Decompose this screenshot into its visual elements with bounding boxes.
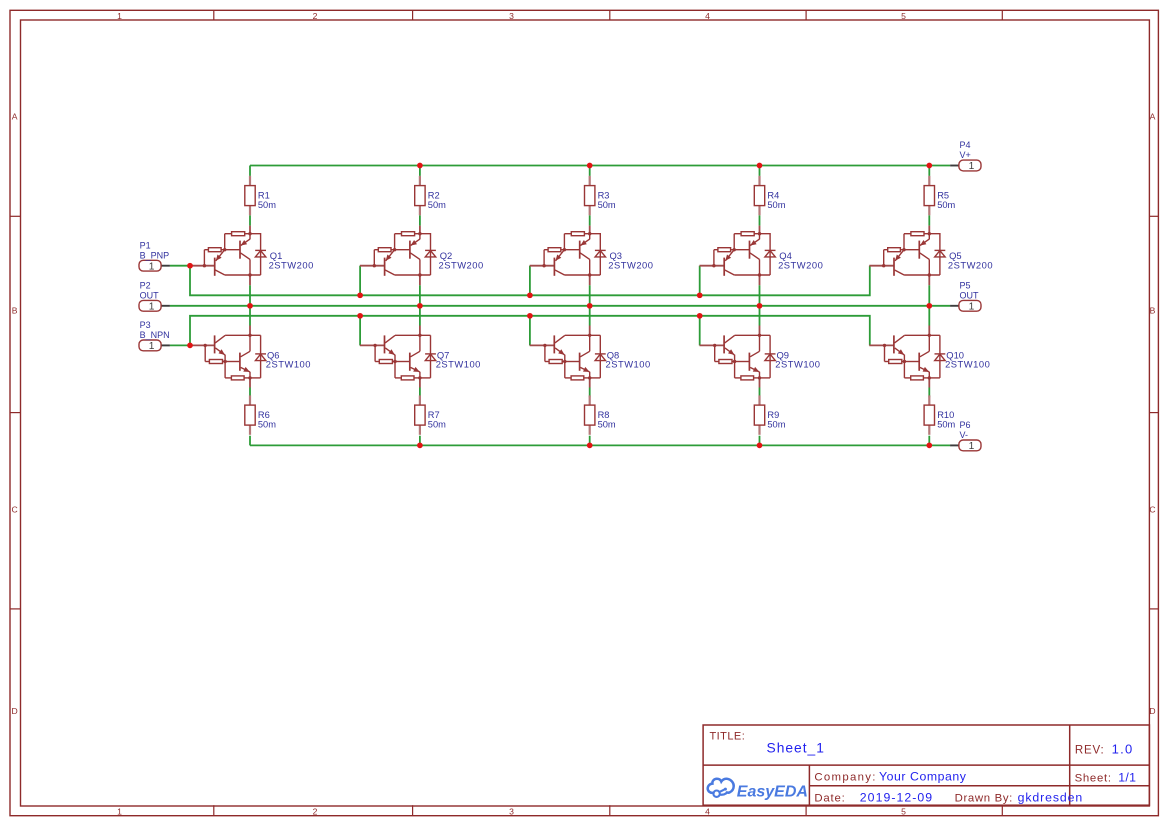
- svg-text:Sheet_1: Sheet_1: [767, 741, 825, 756]
- junction OUT bus / Q5 column: [926, 303, 932, 309]
- svg-text:2STW100: 2STW100: [945, 359, 990, 370]
- transistor Q4 (2STW200 PNP darlington): [700, 226, 824, 286]
- wire resistor-to-transistor stubs: [250, 215, 929, 397]
- wire B_NPN bus: [170, 316, 870, 346]
- port P5 OUT: [950, 280, 981, 312]
- transistor Q2 (2STW200 PNP darlington): [360, 226, 484, 286]
- svg-text:2STW200: 2STW200: [439, 259, 484, 270]
- svg-text:OUT: OUT: [140, 291, 160, 301]
- junction B_NPN bus / Q9 base: [697, 313, 703, 319]
- wire OUT bus: [170, 285, 950, 325]
- resistor R8 (50m): [585, 395, 616, 434]
- sheet 1/1: [1075, 771, 1137, 785]
- svg-text:2STW200: 2STW200: [269, 259, 314, 270]
- svg-text:B: B: [12, 306, 18, 316]
- svg-text:Your Company: Your Company: [879, 769, 967, 783]
- junction P1 / Q1 base: [187, 263, 193, 269]
- svg-text:P6: P6: [960, 420, 971, 430]
- port P3 B_NPN: [139, 320, 170, 352]
- company: [814, 769, 966, 783]
- svg-text:Date:: Date:: [814, 792, 845, 804]
- junction OUT bus / Q4 column: [757, 303, 763, 309]
- resistor R3 (50m): [585, 176, 616, 215]
- port P1 B_PNP: [139, 240, 170, 272]
- svg-text:5: 5: [901, 11, 906, 21]
- svg-text:50m: 50m: [767, 419, 785, 429]
- transistor Q10 (2STW100 NPN darlington): [869, 326, 990, 388]
- svg-text:1/1: 1/1: [1118, 771, 1136, 785]
- svg-text:Company:: Company:: [814, 771, 876, 783]
- svg-text:50m: 50m: [428, 419, 446, 429]
- svg-text:50m: 50m: [937, 200, 955, 210]
- svg-text:TITLE:: TITLE:: [710, 731, 746, 743]
- resistor R6 (50m): [245, 395, 276, 434]
- transistor Q8 (2STW100 NPN darlington): [530, 326, 651, 388]
- svg-text:1: 1: [969, 441, 975, 452]
- svg-text:50m: 50m: [767, 200, 785, 210]
- svg-text:50m: 50m: [598, 419, 616, 429]
- junction V- rail / R8: [587, 443, 593, 449]
- svg-text:EasyEDA: EasyEDA: [737, 784, 808, 801]
- svg-text:1: 1: [117, 806, 122, 816]
- svg-text:5: 5: [901, 806, 906, 816]
- svg-text:1: 1: [149, 261, 155, 272]
- EasyEDA logo: [708, 779, 808, 801]
- svg-text:3: 3: [509, 11, 514, 21]
- svg-text:2STW100: 2STW100: [775, 359, 820, 370]
- junction B_NPN bus / Q7 base: [357, 313, 363, 319]
- svg-text:2019-12-09: 2019-12-09: [860, 790, 933, 804]
- junction B_PNP bus / Q3 base: [527, 292, 533, 298]
- port P2 OUT: [139, 280, 170, 312]
- transistor Q1 (2STW200 PNP darlington): [190, 226, 314, 286]
- svg-text:P3: P3: [140, 320, 151, 330]
- svg-text:2STW200: 2STW200: [948, 259, 993, 270]
- wire B_PNP bus: [170, 266, 870, 296]
- port P4 V+: [950, 140, 981, 172]
- svg-text:D: D: [11, 706, 17, 716]
- junction V+ rail / R2: [417, 163, 423, 169]
- svg-text:P5: P5: [960, 280, 971, 290]
- junction B_PNP bus / Q2 base: [357, 292, 363, 298]
- svg-text:B_NPN: B_NPN: [140, 330, 170, 340]
- wire V+ rail (top): [250, 166, 950, 176]
- svg-text:50m: 50m: [937, 419, 955, 429]
- svg-text:P2: P2: [140, 280, 151, 290]
- svg-text:1.0: 1.0: [1112, 741, 1134, 756]
- resistor R10 (50m): [924, 395, 955, 434]
- svg-text:C: C: [1149, 505, 1155, 515]
- junction OUT bus / Q1 column: [247, 303, 253, 309]
- svg-text:B: B: [1150, 306, 1156, 316]
- svg-text:4: 4: [705, 11, 710, 21]
- svg-text:2STW100: 2STW100: [266, 359, 311, 370]
- svg-text:Sheet:: Sheet:: [1075, 772, 1112, 784]
- svg-text:2STW100: 2STW100: [436, 359, 481, 370]
- resistor R4 (50m): [754, 176, 785, 215]
- svg-text:V-: V-: [960, 430, 969, 440]
- svg-text:2STW200: 2STW200: [778, 259, 823, 270]
- junction V- rail / R9: [757, 443, 763, 449]
- svg-text:2: 2: [313, 806, 318, 816]
- transistor Q5 (2STW200 PNP darlington): [869, 226, 993, 286]
- transistor Q6 (2STW100 NPN darlington): [190, 326, 311, 388]
- svg-text:4: 4: [705, 806, 710, 816]
- title block: [703, 725, 1149, 805]
- svg-text:2: 2: [313, 11, 318, 21]
- rev 1.0: [1075, 741, 1134, 756]
- svg-text:REV:: REV:: [1075, 744, 1105, 756]
- junction OUT bus / Q3 column: [587, 303, 593, 309]
- junction OUT bus / Q2 column: [417, 303, 423, 309]
- svg-text:50m: 50m: [428, 200, 446, 210]
- svg-text:2STW100: 2STW100: [606, 359, 651, 370]
- date + drawn by: [814, 790, 1083, 804]
- wire V- rail (bottom): [250, 436, 950, 446]
- svg-text:V+: V+: [960, 150, 971, 160]
- resistor R7 (50m): [415, 395, 446, 434]
- svg-text:P4: P4: [960, 140, 971, 150]
- junction P3 / Q6 base: [187, 343, 193, 349]
- junction V- rail / R7: [417, 443, 423, 449]
- resistor R2 (50m): [415, 176, 446, 215]
- junction V+ rail / R5: [926, 163, 932, 169]
- port P6 V-: [950, 420, 981, 452]
- svg-text:1: 1: [969, 161, 975, 172]
- svg-text:50m: 50m: [258, 200, 276, 210]
- junction V+ rail / R3: [587, 163, 593, 169]
- svg-text:OUT: OUT: [960, 291, 980, 301]
- svg-text:A: A: [12, 112, 18, 122]
- resistor R5 (50m): [924, 176, 955, 215]
- svg-text:3: 3: [509, 806, 514, 816]
- resistor R9 (50m): [754, 395, 785, 434]
- svg-text:gkdresden: gkdresden: [1018, 790, 1084, 804]
- junction B_PNP bus / Q4 base: [697, 292, 703, 298]
- svg-text:B_PNP: B_PNP: [140, 250, 170, 260]
- svg-text:1: 1: [149, 341, 155, 352]
- svg-text:P1: P1: [140, 240, 151, 250]
- transistor Q3 (2STW200 PNP darlington): [530, 226, 654, 286]
- svg-text:1: 1: [969, 301, 975, 312]
- svg-text:2STW200: 2STW200: [608, 259, 653, 270]
- svg-text:50m: 50m: [598, 200, 616, 210]
- svg-text:A: A: [1150, 112, 1156, 122]
- transistor Q7 (2STW100 NPN darlington): [360, 326, 481, 388]
- svg-text:Drawn By:: Drawn By:: [955, 792, 1013, 804]
- junction V- rail / R10: [926, 443, 932, 449]
- svg-text:D: D: [1149, 706, 1155, 716]
- svg-text:50m: 50m: [258, 419, 276, 429]
- svg-text:1: 1: [149, 301, 155, 312]
- svg-text:C: C: [11, 505, 17, 515]
- junction V+ rail / R4: [757, 163, 763, 169]
- transistor Q9 (2STW100 NPN darlington): [700, 326, 821, 388]
- junction B_NPN bus / Q8 base: [527, 313, 533, 319]
- svg-text:1: 1: [117, 11, 122, 21]
- resistor R1 (50m): [245, 176, 276, 215]
